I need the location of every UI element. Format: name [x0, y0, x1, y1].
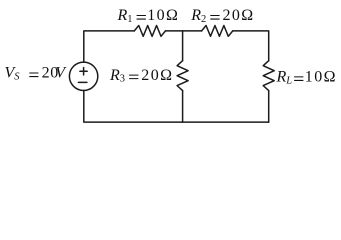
resistor R3	[177, 61, 188, 91]
wire R2 to top-right corner down to RL	[233, 31, 269, 61]
svg-text:10Ω: 10Ω	[305, 69, 337, 86]
svg-text:20Ω: 20Ω	[223, 7, 255, 24]
svg-text:R3: R3	[109, 67, 125, 85]
resistor RL	[263, 61, 274, 91]
svg-text:RL: RL	[276, 69, 293, 87]
svg-text:R2: R2	[190, 7, 206, 25]
svg-text:10Ω: 10Ω	[147, 7, 179, 24]
wire RL to bottom-right corner	[268, 91, 270, 123]
minus terminal of Vs	[78, 81, 87, 83]
svg-text:VS: VS	[5, 65, 21, 83]
wire bottom: from source bottom across to right	[84, 90, 269, 122]
svg-text:R1: R1	[117, 7, 133, 25]
wire top-left: from voltage source up and right to R1	[84, 31, 135, 62]
resistor R2	[202, 26, 233, 37]
voltage source Vs circle	[69, 62, 97, 90]
svg-text:20Ω: 20Ω	[141, 67, 173, 84]
plus terminal of Vs	[80, 68, 87, 75]
wire R1 to node A and R2	[165, 30, 201, 32]
svg-text:V: V	[55, 65, 67, 82]
resistor R1	[134, 26, 165, 37]
wire R3 to bottom junction	[182, 91, 184, 123]
node A wire: top junction down to R3	[182, 31, 184, 61]
